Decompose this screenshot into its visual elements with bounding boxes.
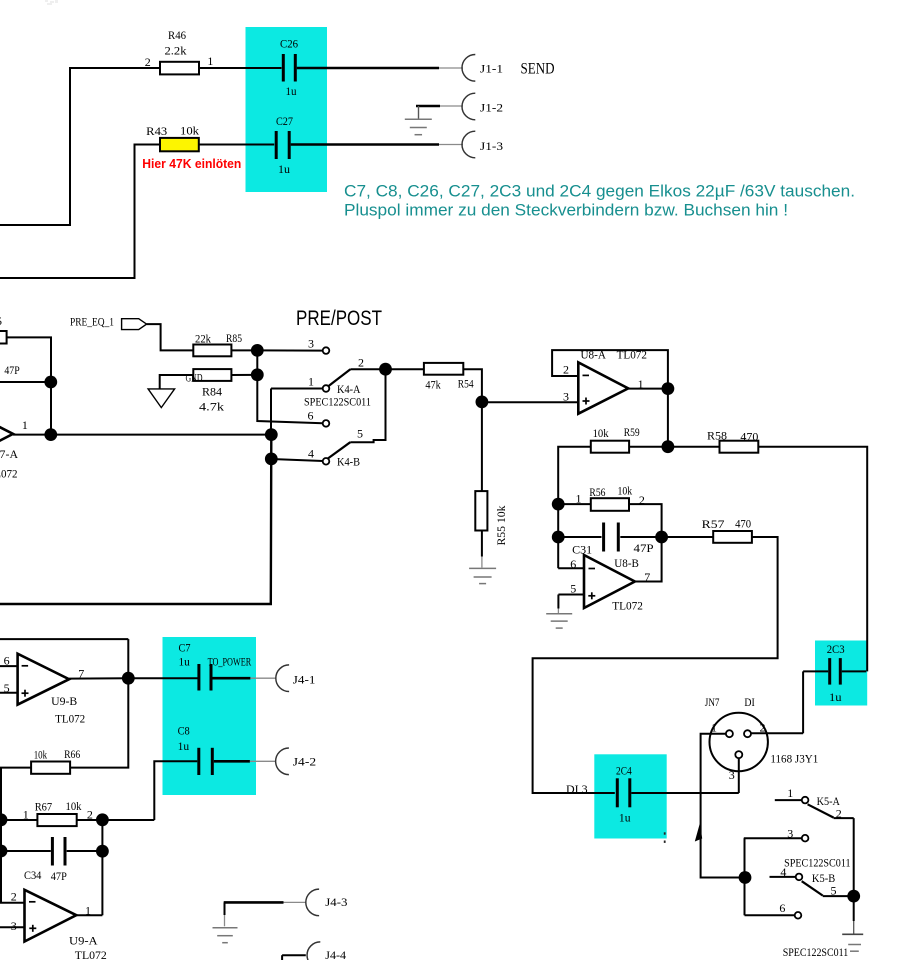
svg-text:R58: R58 [707,429,727,443]
svg-text:R56: R56 [589,485,605,499]
wire [256,350,258,374]
svg-text:4: 4 [780,865,786,879]
wire [7,337,51,434]
wire [257,349,323,351]
svg-text:10k: 10k [180,124,199,138]
wire [738,758,740,793]
svg-text:TL072: TL072 [0,467,18,481]
svg-text:1: 1 [22,418,28,432]
wire [533,537,778,793]
svg-text:1u: 1u [619,811,631,825]
resistor R85 [193,345,231,357]
capacitor C34 [51,837,54,866]
smudge top left [45,0,58,5]
node junction [662,382,675,395]
wire [744,838,746,915]
wire [635,537,662,582]
ground GND [160,375,194,389]
svg-text:Pluspol immer zu den Steckverb: Pluspol immer zu den Steckverbindern bzw… [344,201,788,220]
wire [558,503,591,505]
node junction [44,376,57,389]
svg-text:5: 5 [831,884,837,898]
wire [257,375,323,424]
svg-text:TL072: TL072 [75,948,107,960]
wire [271,459,323,461]
svg-text:SPEC122SC011: SPEC122SC011 [784,856,851,870]
svg-text:2: 2 [145,55,151,69]
ground [469,567,496,569]
wire [758,447,867,672]
wire [154,761,197,820]
svg-text:SPEC122SC011: SPEC122SC011 [304,395,371,409]
svg-text:2: 2 [11,890,17,904]
wire [199,144,274,146]
connector J1-3 [462,131,475,158]
wire [231,374,257,376]
svg-text:PRE_EQ_1: PRE_EQ_1 [70,315,114,329]
pin 1 XLR [726,730,733,737]
wire [620,536,661,538]
svg-text:C7: C7 [179,641,191,655]
wire [224,901,284,904]
capacitor C7 [197,664,200,691]
op-amp U7-A [0,408,13,459]
resistor R46 [160,62,199,75]
svg-text:U9-A: U9-A [69,933,98,947]
wire [231,349,257,351]
wire [802,671,804,733]
switch K4-A [271,388,323,390]
svg-text:5: 5 [0,314,2,328]
svg-text:J1-1: J1-1 [480,62,503,76]
resistor R84 [193,369,231,381]
svg-text:10k: 10k [66,799,82,813]
svg-text:R59: R59 [624,425,640,439]
wire [0,68,160,225]
capacitor 47P wire [0,381,51,383]
wire [744,837,802,839]
node junction [739,871,752,884]
wire [386,368,424,370]
wire [69,677,128,679]
ground [418,106,420,119]
svg-text:1168 J3Y1: 1168 J3Y1 [770,751,818,765]
wire [557,504,559,537]
arrow [695,824,702,842]
node junction [0,813,7,826]
wire [557,537,559,568]
svg-text:DI 3: DI 3 [566,782,588,796]
wire [558,594,584,596]
svg-text:10k: 10k [34,747,47,761]
wire [199,67,282,69]
svg-text:470: 470 [740,429,758,443]
wire [629,446,719,448]
svg-text:R67: R67 [35,800,52,814]
svg-text:TL072: TL072 [612,599,643,613]
svg-text:1: 1 [711,721,717,735]
switch pin 6 K5 [795,912,802,919]
wire [853,818,855,896]
highlight box C7/C8 [163,637,257,795]
svg-text:10k: 10k [618,484,633,498]
highlight box 2C4 [594,754,666,838]
svg-text:2: 2 [563,363,569,377]
wire [667,389,669,447]
svg-text:R85: R85 [226,331,242,345]
resistor R66 [31,762,70,774]
svg-text:1: 1 [207,54,213,68]
svg-text:U9-B: U9-B [51,694,77,708]
wire [481,531,483,557]
svg-text:J1-3: J1-3 [480,139,503,153]
node junction [265,453,278,466]
wire [482,401,578,403]
node junction [96,845,109,858]
wire [0,145,160,279]
svg-text:R57: R57 [702,517,725,531]
op-amp U9-B [18,654,70,705]
svg-text:SEND: SEND [521,61,555,78]
svg-text:4: 4 [308,447,314,461]
svg-text:R66: R66 [64,747,80,761]
svg-text:TL072: TL072 [55,712,85,726]
capacitor C31 [602,523,605,552]
svg-text:3: 3 [787,826,793,840]
svg-text:GND: GND [186,371,203,385]
wire [481,402,483,491]
node junction [379,363,392,376]
svg-text:C8: C8 [178,723,190,737]
svg-text:TO_POWER: TO_POWER [208,655,252,669]
svg-text:2: 2 [639,493,645,507]
node junction [96,813,109,826]
node junction [265,428,278,441]
wire [0,902,25,904]
svg-text:2: 2 [358,356,364,370]
wire [416,105,440,108]
connector J4-4 [307,942,320,960]
capacitor 2C4 [616,778,619,807]
switch K5-A [775,799,802,801]
op-amp U9-A [25,890,77,942]
wire [552,350,668,389]
svg-text:K4-B: K4-B [337,455,360,469]
svg-text:J1-2: J1-2 [480,101,503,115]
wire [76,914,102,916]
svg-text:6: 6 [308,409,314,423]
svg-text:SPEC122SC011: SPEC122SC011 [783,945,849,959]
svg-text:2: 2 [87,808,93,822]
svg-text:DI: DI [744,695,754,709]
svg-text:6: 6 [779,901,785,915]
capacitor 2C3 [828,658,831,685]
svg-text:R54: R54 [458,377,474,391]
wire [282,954,306,956]
svg-text:2: 2 [760,721,766,735]
wire [558,567,584,569]
svg-text:4.7k: 4.7k [199,400,224,414]
svg-text:R55 10k: R55 10k [494,506,508,546]
resistor at left edge [0,331,7,344]
svg-text:Hier 47K einlöten: Hier 47K einlöten [142,157,241,171]
svg-text:J4-1: J4-1 [293,673,316,687]
wire [1,768,31,903]
svg-text:R43: R43 [146,124,167,138]
connector J1-2 [462,93,475,120]
svg-text:J4-3: J4-3 [325,895,347,909]
resistor R43 [160,138,199,151]
speck [664,832,666,834]
resistor R58 [720,441,759,453]
wire [0,638,128,640]
connector J4-2 [276,748,289,775]
svg-text:PRE/POST: PRE/POST [296,307,382,330]
svg-text:47k: 47k [425,377,440,391]
wire [558,536,601,538]
switch K4-B [350,369,385,442]
wire [70,678,128,767]
wire [1,819,37,821]
svg-text:3: 3 [563,389,569,403]
svg-text:K5-B: K5-B [812,871,835,885]
svg-text:1u: 1u [829,690,842,704]
svg-text:U8-B: U8-B [614,556,639,570]
svg-text:1u: 1u [278,162,290,176]
resistor R59 [591,441,629,453]
wire [147,324,194,350]
wire [291,143,439,146]
svg-text:J4-2: J4-2 [293,755,316,769]
resistor R56 [591,498,629,511]
wire [628,388,668,390]
wire [77,819,155,821]
svg-text:J4-4: J4-4 [325,948,346,960]
node junction [847,890,860,903]
wire [0,665,18,667]
wire [629,504,662,537]
connector J1-1 [462,55,475,82]
node junction [476,396,489,409]
node junction [122,672,135,685]
svg-text:C26: C26 [280,37,298,51]
capacitor C27 [275,131,278,159]
switch K5-B [770,876,796,878]
node junction [251,368,264,381]
wire [0,692,18,694]
svg-text:5: 5 [357,427,363,441]
svg-text:3: 3 [11,919,17,933]
switch pin 1 K4-A [323,385,330,392]
wire [297,67,439,70]
svg-text:2C4: 2C4 [616,764,632,778]
svg-text:1: 1 [308,375,314,389]
capacitor C26 [282,54,285,82]
svg-text:C31: C31 [572,543,592,557]
ground [224,902,226,915]
wire [1,850,51,852]
wire [745,914,795,916]
net flag [122,319,147,330]
svg-text:1u: 1u [179,655,190,669]
wire [0,926,25,928]
wire [701,734,745,878]
wire [214,760,250,763]
wire [803,670,828,672]
wire [101,820,103,915]
node junction [655,531,668,544]
wire [67,850,103,852]
switch pin 4 K5-B [796,874,803,881]
svg-text:JN7: JN7 [705,695,720,709]
svg-text:C7, C8, C26, C27, 2C3 und 2C4: C7, C8, C26, C27, 2C3 und 2C4 gegen Elko… [344,182,855,201]
svg-text:5: 5 [570,582,576,596]
switch pin 6 [323,420,330,427]
wire [128,677,197,679]
svg-text:47P: 47P [51,869,67,883]
svg-text:470: 470 [735,516,751,530]
resistor R57 [713,531,752,543]
svg-text:1u: 1u [178,739,190,753]
svg-text:C34: C34 [24,868,41,882]
wire [558,447,591,504]
wire [13,434,271,436]
svg-text:47P: 47P [634,541,654,555]
switch pin 3 [323,347,330,354]
svg-text:2C3: 2C3 [827,642,845,656]
svg-text:U7-A: U7-A [0,447,18,461]
capacitor C8 [197,748,200,775]
wire [213,677,251,680]
ground [853,896,855,921]
svg-text:C27: C27 [276,114,293,128]
wire [842,670,866,672]
svg-text:R84: R84 [202,385,222,399]
ground [546,613,572,615]
resistor R55 [475,491,487,530]
switch pin 3 K5 [802,835,809,842]
wire [463,369,482,402]
svg-text:47P: 47P [4,363,20,377]
connector J4-3 [306,889,319,916]
wire [0,435,271,604]
node junction [0,845,7,858]
pin 2 XLR [744,730,751,737]
resistor R67 [37,814,76,826]
svg-text:2.2k: 2.2k [165,44,187,58]
node junction [251,344,264,357]
svg-text:1u: 1u [286,84,297,98]
svg-text:1: 1 [787,786,793,800]
highlight box 2C3 [815,641,867,706]
node junction [44,428,57,441]
wire [662,536,714,538]
svg-text:3: 3 [729,768,735,782]
switch pin 1 K5-A [802,797,809,804]
connector J4-1 [276,665,289,692]
svg-text:2: 2 [836,807,842,821]
op-amp U8-A [578,362,628,413]
highlight box C26/C27 [246,27,328,192]
switch pin 4 K4-B [323,458,330,465]
svg-text:10k: 10k [593,426,609,440]
svg-text:R46: R46 [168,28,186,42]
svg-text:22k: 22k [195,332,211,346]
node junction [662,440,675,453]
connector JN7 DI [710,713,768,771]
svg-text:K5-A: K5-A [817,794,841,808]
node junction [552,498,565,511]
resistor R54 [424,363,463,375]
svg-text:3: 3 [308,337,314,351]
op-amp U8-B [584,555,635,608]
pin 3 XLR [735,751,742,758]
svg-text:1: 1 [576,492,582,506]
node junction [552,531,565,544]
